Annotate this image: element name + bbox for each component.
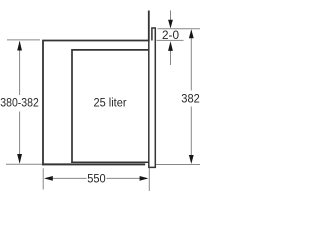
svg-text:382: 382 bbox=[181, 93, 200, 105]
svg-text:550: 550 bbox=[87, 173, 106, 185]
svg-text:380-382: 380-382 bbox=[0, 97, 39, 109]
svg-text:2-0: 2-0 bbox=[162, 30, 179, 42]
svg-text:25 liter: 25 liter bbox=[94, 97, 127, 109]
